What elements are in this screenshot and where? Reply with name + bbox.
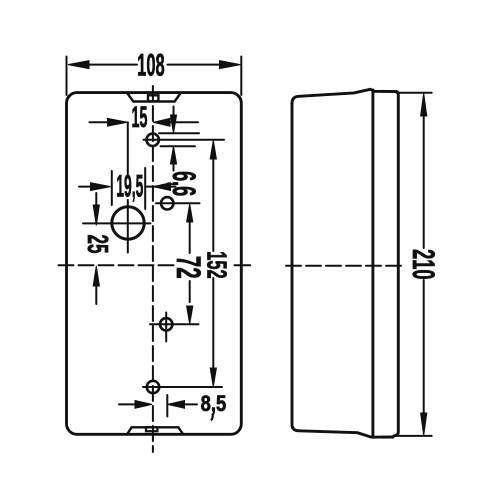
hole H1 top center [147, 134, 159, 146]
hole H3 vertical center line [165, 313, 167, 342]
dimension 8,5 left line [119, 403, 138, 405]
dimension 15 left arrowhead [108, 118, 128, 126]
hole H3 horizontal center line [150, 323, 199, 325]
hole H4 center line [143, 386, 222, 388]
dimension 72 upper line [189, 220, 191, 253]
dimension 15 right arrow [153, 118, 170, 126]
bottom notch tab [146, 427, 157, 431]
dimension 15 left line [90, 121, 110, 123]
horizontal centerline front view right part [235, 264, 251, 266]
top notch tab [148, 95, 158, 101]
dimension 108 left arrowhead [68, 61, 89, 69]
dimension 19,5 left line [79, 186, 92, 188]
dimension 108 left extension [66, 57, 68, 96]
dimension 8,5 right arrowhead pointing left [168, 401, 185, 409]
side view lens step vertical edge [371, 90, 374, 437]
side view left edge and body [292, 104, 393, 438]
big hole vertical center line lower [127, 200, 129, 253]
svg-text:25: 25 [82, 234, 114, 253]
big hole horizontal center line [83, 222, 151, 224]
dimension 108 right arrowhead [220, 61, 241, 69]
svg-text:152: 152 [201, 251, 231, 278]
dimension 19,5 inner connector [145, 186, 156, 188]
svg-text:210: 210 [406, 249, 440, 279]
hole H2 offset upper [161, 197, 173, 209]
dimension 6,6 up arrowhead [170, 146, 176, 164]
dimension 8,5 right line [183, 403, 197, 405]
svg-text:8,5: 8,5 [201, 391, 227, 416]
dimension 19,5 right line [169, 186, 176, 188]
dimension 210 lower line [423, 280, 425, 414]
dimension 152 lower line [212, 278, 214, 368]
dimension 152 down arrowhead [210, 368, 216, 387]
dimension 8,5 left arrowhead pointing right [135, 401, 152, 409]
dimension 72 up arrowhead [187, 204, 193, 222]
dimension 25 down arrowhead [93, 205, 99, 225]
dimension 25 upper tail [95, 193, 97, 207]
dimension 15 right line [170, 121, 198, 123]
dimension 210 upper line [423, 114, 425, 248]
top notch recess [128, 94, 181, 102]
dimension 6,6 down arrowhead [170, 115, 176, 133]
big hole right tangent extension [144, 168, 146, 209]
hole H3 offset lower [160, 318, 172, 330]
svg-text:19,5: 19,5 [116, 169, 143, 204]
svg-text:108: 108 [137, 48, 164, 83]
dimension 8,5 extension line [166, 395, 168, 417]
dimension 72 down arrowhead [187, 306, 193, 324]
vertical centerline [152, 86, 154, 452]
svg-text:15: 15 [132, 100, 148, 133]
dimension 19,5 right arrowhead [154, 183, 171, 191]
hole H2 center line [156, 202, 200, 204]
dimension 25 lower tail [95, 284, 97, 304]
front view outline [67, 93, 242, 435]
side view top edge [292, 89, 397, 103]
dimension 6,6 bottom tangent line [161, 145, 196, 147]
dimension 210 up arrowhead [421, 93, 427, 116]
horizontal centerline front view left part [59, 264, 174, 266]
big hole vertical center line upper [127, 122, 129, 174]
dimension 6,6 top tangent line [159, 132, 199, 134]
dimension 108 right extension [240, 57, 242, 96]
svg-text:6,6: 6,6 [166, 171, 203, 196]
dimension 108 left line [86, 64, 137, 66]
bottom notch recess [127, 427, 182, 434]
label 8,5 comma tail [211, 414, 213, 421]
big mounting hole [112, 207, 144, 239]
dimension 108 right line [168, 64, 223, 66]
dimension 72 lower line [189, 281, 191, 302]
dimension 19,5 left arrowhead [91, 183, 111, 191]
hole H4 bottom center [147, 381, 159, 393]
dimension 210 down arrowhead [421, 413, 427, 436]
side view horizontal centerline [286, 265, 403, 267]
dimension 210 top extension line [397, 92, 432, 94]
hole H1 center line [144, 139, 225, 141]
side view right edge [394, 92, 398, 436]
dimension 6,6 lower tail [173, 162, 175, 171]
dimension 25 up arrowhead [93, 266, 99, 286]
dimension 152 up arrowhead [210, 140, 216, 159]
dimension 210 bottom extension line [394, 435, 432, 437]
dimension 152 upper line [212, 157, 214, 251]
dimension 6,6 upper tail [173, 107, 175, 119]
big hole left tangent extension [111, 171, 113, 205]
